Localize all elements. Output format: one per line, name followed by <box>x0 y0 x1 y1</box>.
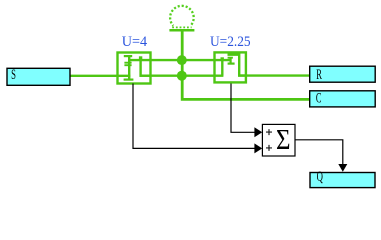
svg-text:S: S <box>11 67 16 83</box>
U1 bottom bar <box>124 78 134 80</box>
lamp dotted chord <box>172 26 191 28</box>
U2 bottom plate <box>228 62 235 64</box>
U1 cap bar1 <box>124 62 131 64</box>
U2 cap bar <box>228 57 233 59</box>
svg-text:U=4: U=4 <box>122 34 148 50</box>
black wire U1 to sum lower input <box>133 84 255 149</box>
U1 gate main vertical <box>128 55 130 81</box>
block C <box>310 91 376 107</box>
U1 top bar <box>124 55 132 57</box>
arrowhead into Q <box>338 164 347 172</box>
sum block U3 <box>262 124 295 156</box>
MOSFET U2 box <box>215 52 246 82</box>
plus upper <box>266 129 272 135</box>
block R <box>310 66 376 82</box>
block S <box>7 68 70 85</box>
svg-text:U=2.25: U=2.25 <box>210 34 251 50</box>
wire S to left MOSFET <box>70 75 130 77</box>
wire lower bus left box to right box <box>140 74 224 76</box>
U1 cap bar2 <box>124 64 131 66</box>
svg-text:Q: Q <box>317 169 323 185</box>
wire upper bus between boxes <box>129 59 231 61</box>
svg-text:Σ: Σ <box>276 124 291 156</box>
wire right box to R <box>238 74 310 76</box>
U2 gate stub <box>230 58 232 64</box>
black wire sum output to Q <box>295 140 343 164</box>
U2 top plate with corner to exit <box>228 55 247 76</box>
black wire U2 to sum upper input <box>231 84 255 133</box>
arrowhead sum lower input <box>254 143 262 153</box>
U1 drain drop with junction square <box>139 56 142 59</box>
plus lower <box>266 145 272 151</box>
node junction dot upper <box>177 55 187 65</box>
MOSFET U1 box <box>118 53 151 84</box>
arrowhead sum upper input <box>254 127 262 137</box>
node junction dot lower <box>177 71 187 81</box>
lamp bulb dome (dashed arc) <box>170 6 194 26</box>
wire lamp stem down to C <box>182 31 310 100</box>
lamp base bar <box>169 29 194 32</box>
block Q <box>310 173 375 188</box>
svg-text:R: R <box>316 67 322 83</box>
svg-text:C: C <box>316 91 322 107</box>
U2 junction square and drop <box>221 57 224 60</box>
